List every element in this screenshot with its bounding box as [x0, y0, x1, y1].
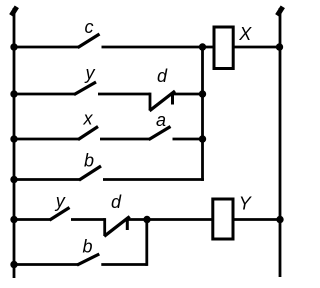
rung 5 wire to right rail [232, 218, 280, 221]
rung 2 wire middle [98, 93, 150, 96]
vertical branch bus (rungs 1-4) [201, 47, 204, 181]
contact y2 blade [50, 208, 70, 221]
contact d (NC) blade [150, 91, 176, 111]
relay coil X [214, 27, 233, 69]
svg-text:a: a [156, 110, 166, 130]
contact d (NC) drop [149, 93, 152, 111]
rung 2 wire left [14, 93, 75, 96]
contact y blade [74, 82, 96, 95]
node rung5/left rail [10, 216, 17, 223]
contact d (NC) seat tick [171, 94, 174, 105]
contact d2 (NC) blade [104, 217, 130, 237]
right supply rail [279, 8, 282, 277]
rung 5 wire middle [71, 218, 105, 221]
contact d2 (NC) seat tick [126, 220, 129, 231]
relay coil Y [213, 199, 233, 239]
svg-text:X: X [238, 24, 252, 44]
svg-text:Y: Y [239, 193, 253, 213]
svg-text:y: y [54, 191, 66, 211]
rung 2 wire right [170, 93, 202, 96]
rung 3 wire middle [100, 138, 150, 141]
left supply rail [13, 8, 16, 278]
node rung2/branch junction [199, 90, 206, 97]
svg-text:d: d [111, 192, 122, 212]
node rung5/rung6 junction [143, 216, 150, 223]
rung 4 wire left [14, 178, 80, 181]
svg-text:b: b [84, 151, 94, 171]
rung 6 riser wire to rung 5 [145, 220, 148, 266]
rung 3 wire right [173, 138, 203, 141]
rung 5 wire left [14, 218, 51, 221]
rung 4 wire right [103, 178, 204, 181]
left rail top tick [11, 7, 16, 16]
svg-text:b: b [82, 236, 92, 256]
rung 1 wire to right rail [233, 46, 280, 49]
node rung1/branch junction [199, 43, 206, 50]
svg-text:x: x [83, 109, 94, 129]
contact a blade [149, 127, 171, 140]
rung 5 wire right [125, 218, 213, 221]
svg-text:c: c [85, 17, 94, 37]
node rung3/left rail [10, 135, 17, 142]
node rung1/right rail [276, 43, 283, 50]
rung 1 wire right [102, 46, 215, 49]
rung 6 wire right [101, 263, 147, 266]
rung 3 wire left [14, 138, 79, 141]
contact b blade [79, 166, 101, 180]
contact b2 blade [77, 254, 99, 265]
svg-text:d: d [157, 66, 168, 86]
contact x blade [78, 127, 98, 140]
right rail top tick [277, 7, 283, 16]
node rung5/right rail [276, 216, 283, 223]
contact d2 (NC) drop [103, 218, 106, 236]
node rung6/left rail [10, 261, 17, 268]
node rung4/left rail [10, 176, 17, 183]
node rung1/left rail [10, 43, 17, 50]
svg-text:y: y [84, 63, 96, 83]
rung 1 wire left [14, 46, 79, 49]
node rung3/branch junction [199, 135, 206, 142]
node rung2/left rail [10, 90, 17, 97]
rung 6 wire left [14, 263, 78, 266]
contact c blade [78, 34, 100, 48]
